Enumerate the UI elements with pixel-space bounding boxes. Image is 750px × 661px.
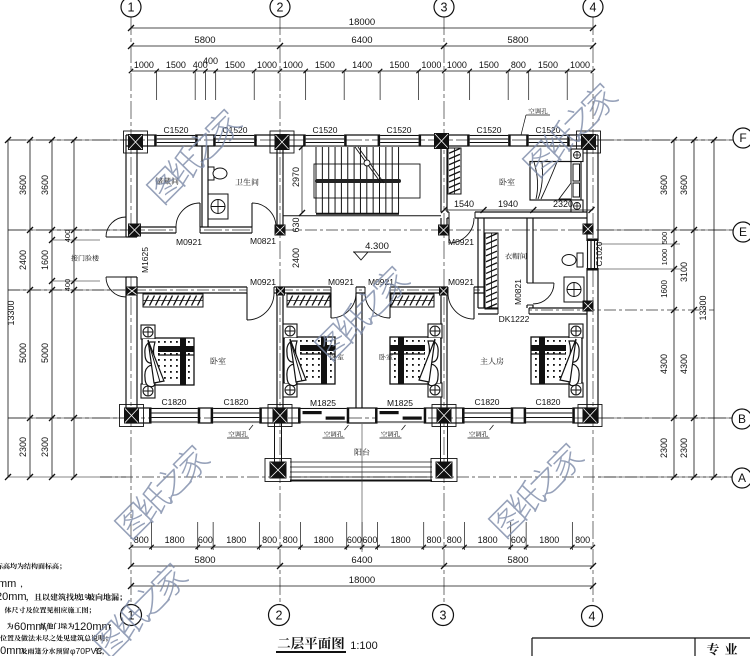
title underline <box>276 651 346 653</box>
svg-text:6400: 6400 <box>351 35 372 46</box>
svg-text:13300: 13300 <box>698 295 708 320</box>
wall 1 left exterior <box>125 135 127 423</box>
svg-text:60mm,: 60mm, <box>14 621 48 633</box>
column 3E2 <box>439 287 448 296</box>
balcony label <box>355 448 370 455</box>
svg-text:C1820: C1820 <box>535 397 560 407</box>
room label storage <box>155 177 178 184</box>
svg-text:1000: 1000 <box>660 249 669 266</box>
svg-text:F: F <box>739 131 746 145</box>
stair dim 2970/630 <box>301 147 303 213</box>
svg-text:3: 3 <box>440 608 447 622</box>
watermark 5 <box>486 439 586 539</box>
room label cloakroom <box>505 253 527 260</box>
column 2B <box>268 405 292 427</box>
svg-text:E: E <box>739 225 747 239</box>
bed bedroom3 <box>390 337 441 384</box>
axis A horizontal dash-dot <box>100 476 732 478</box>
svg-text:4: 4 <box>589 609 596 623</box>
watermark 4 <box>112 441 212 541</box>
svg-text:5000: 5000 <box>18 343 28 363</box>
balcony side rail right <box>440 423 442 462</box>
svg-text:500: 500 <box>660 232 669 245</box>
stair boundary <box>316 213 399 215</box>
wardrobe bedroom1 <box>143 294 203 307</box>
svg-text:600: 600 <box>198 535 213 545</box>
grid bubble E <box>733 222 750 242</box>
svg-text:2320: 2320 <box>553 199 573 209</box>
svg-text:800: 800 <box>447 535 462 545</box>
svg-text:1540: 1540 <box>454 199 474 209</box>
room label master <box>480 357 503 364</box>
bed top-right bedroom <box>530 162 581 201</box>
notes line1 <box>0 563 62 570</box>
wall 2 vertical E2-B <box>276 293 278 408</box>
svg-text:1500: 1500 <box>389 60 409 70</box>
right dim vertical lines <box>673 140 675 477</box>
balcony column 3A <box>431 459 457 482</box>
balcony mid axis line <box>361 424 363 552</box>
wall 3 vertical F-E <box>440 146 442 212</box>
svg-text:1500: 1500 <box>538 60 558 70</box>
svg-text:1800: 1800 <box>478 535 498 545</box>
bottom dim 5800/6400/5800 <box>131 565 593 567</box>
svg-text:800: 800 <box>262 535 277 545</box>
svg-text:800: 800 <box>575 535 590 545</box>
svg-text:1800: 1800 <box>391 535 411 545</box>
svg-text:13300: 13300 <box>6 300 16 325</box>
svg-text:C1020: C1020 <box>594 241 604 266</box>
grid bubble 4 top <box>583 0 603 17</box>
svg-text:C1820: C1820 <box>161 397 186 407</box>
wall 3 vertical E2-B <box>440 293 442 408</box>
wardrobe bedroom2 <box>287 294 330 307</box>
balcony side rail left <box>274 423 276 462</box>
svg-text:2: 2 <box>276 608 283 622</box>
svg-text:5800: 5800 <box>507 35 528 46</box>
washbasin top bathroom <box>208 194 228 219</box>
balcony column 2A <box>265 459 291 482</box>
wardrobe bedroom3 <box>391 294 434 307</box>
svg-text:5800: 5800 <box>194 555 215 566</box>
windows C1820 / doors M1825 on wall B <box>152 407 198 424</box>
grid bubble 1 top <box>121 0 141 17</box>
door M0921 master (E2 ext) <box>448 293 474 319</box>
column 1F <box>124 131 148 153</box>
svg-text:1000: 1000 <box>257 60 277 70</box>
watermark 1 <box>144 105 244 205</box>
svg-text:18000: 18000 <box>349 575 375 586</box>
svg-text:M0821: M0821 <box>250 236 276 246</box>
svg-text:2970: 2970 <box>291 167 301 187</box>
grid bubble 3 bottom <box>433 605 454 626</box>
wall south of cloakroom/bath y311 <box>478 307 587 309</box>
svg-text:400: 400 <box>63 279 72 292</box>
title <box>278 637 344 650</box>
svg-text:C1520: C1520 <box>312 125 337 135</box>
svg-text:600: 600 <box>511 535 526 545</box>
right dim ticks <box>671 137 677 143</box>
grid bubble 4 bottom <box>582 606 603 627</box>
svg-text:M0921: M0921 <box>448 237 474 247</box>
cloakroom west wall x481 <box>477 218 479 308</box>
left dim ticks <box>27 137 33 143</box>
svg-text:5800: 5800 <box>507 555 528 566</box>
room label bedroom topright <box>499 178 514 185</box>
svg-text:1500: 1500 <box>225 60 245 70</box>
svg-text:1500: 1500 <box>166 60 186 70</box>
svg-text:00mm: 00mm <box>0 645 25 656</box>
door M0921 bedroom1 (E2) <box>247 293 274 320</box>
room label bedroom1 <box>210 357 225 364</box>
grid axis line 3 <box>443 17 445 605</box>
svg-text:DK1222: DK1222 <box>499 314 530 324</box>
AC hole labels bottom <box>229 431 248 437</box>
watermark 3 <box>312 262 412 362</box>
svg-text:C1820: C1820 <box>474 397 499 407</box>
opening DK1222 <box>498 307 529 315</box>
svg-text:1800: 1800 <box>314 535 334 545</box>
door opening M0921 storage in wall E <box>176 226 200 234</box>
door M0821 bath top <box>252 203 276 227</box>
column 3B <box>432 405 456 427</box>
left dim vertical lines <box>7 140 9 477</box>
svg-text:5000: 5000 <box>40 343 50 363</box>
svg-text:C1820: C1820 <box>223 397 248 407</box>
axis E horizontal <box>8 229 733 231</box>
grid bubble B <box>732 409 750 429</box>
svg-text:600: 600 <box>362 535 377 545</box>
svg-text:1000: 1000 <box>570 60 590 70</box>
svg-text:3: 3 <box>441 0 448 14</box>
axis E-right 310 dash-dot <box>520 309 714 311</box>
wall 2 vertical F-E <box>276 146 278 227</box>
svg-text:M0921: M0921 <box>250 277 276 287</box>
notes line4 <box>5 607 91 614</box>
svg-text:800: 800 <box>511 60 526 70</box>
top dim line 5800/6400/5800 <box>131 45 593 47</box>
bed bedroom2 <box>284 337 335 384</box>
svg-text:18000: 18000 <box>349 17 375 28</box>
svg-text:1000: 1000 <box>447 60 467 70</box>
wall E interior horizontal (1-3) <box>137 226 447 228</box>
door M0821 cloak-bath <box>533 283 554 304</box>
grid bubble A <box>732 468 750 488</box>
bed master <box>531 337 582 384</box>
wardrobe cloakroom <box>485 233 498 309</box>
svg-text:3100: 3100 <box>679 262 689 282</box>
bed bedroom1 <box>142 338 194 385</box>
table label <box>707 643 737 655</box>
watermark 6 <box>90 559 190 659</box>
column 2E2 <box>276 287 285 296</box>
wall E-prime right horizontal <box>447 211 587 213</box>
notes line5 <box>7 623 14 630</box>
door M0921 storage <box>176 203 200 227</box>
stair rail outline <box>314 164 420 198</box>
svg-text:1500: 1500 <box>479 60 499 70</box>
grid axis line 1 <box>130 17 132 605</box>
grid bubble F <box>733 128 750 148</box>
svg-text:φ70PVC: φ70PVC <box>70 646 102 656</box>
svg-text:M0921: M0921 <box>328 277 354 287</box>
svg-text:M1825: M1825 <box>387 398 413 408</box>
svg-text:C1520: C1520 <box>476 125 501 135</box>
column 4F <box>577 131 601 153</box>
svg-text:C1520: C1520 <box>386 125 411 135</box>
watermark 2 <box>520 79 620 179</box>
svg-text:400: 400 <box>203 56 218 66</box>
toilet top bathroom <box>208 167 214 180</box>
grid axis line 2 <box>279 17 281 605</box>
axis F horizontal <box>8 139 733 141</box>
svg-text:2300: 2300 <box>40 437 50 457</box>
svg-text:2300: 2300 <box>679 438 689 458</box>
svg-text:4300: 4300 <box>679 354 689 374</box>
wall E2 extension right with master door <box>447 286 484 288</box>
top extension lines <box>156 71 158 100</box>
svg-text:2400: 2400 <box>18 250 28 270</box>
right dim horizontal extension lines <box>598 139 733 141</box>
grid axis line 4 <box>592 17 594 605</box>
svg-text:4300: 4300 <box>659 354 669 374</box>
washbasin master bathroom <box>564 277 584 302</box>
svg-text:20mm: 20mm <box>0 591 27 603</box>
svg-text:1:100: 1:100 <box>350 640 378 652</box>
svg-text:600: 600 <box>347 535 362 545</box>
svg-text:M1825: M1825 <box>310 398 336 408</box>
top dim line 18000 <box>131 27 593 29</box>
svg-text:3600: 3600 <box>659 175 669 195</box>
windows C1520 on wall F <box>157 134 196 147</box>
door M0921 bedroom3 (E2) <box>365 293 390 318</box>
column 1B <box>120 405 144 427</box>
notes line6 <box>0 635 107 642</box>
window C1020 in right wall <box>586 241 599 268</box>
bottom dim 18000 <box>131 585 593 587</box>
svg-text:2: 2 <box>277 0 284 14</box>
door M1625 opening in left wall <box>125 237 138 277</box>
svg-text:2400: 2400 <box>291 248 301 268</box>
svg-text:2300: 2300 <box>659 438 669 458</box>
wall F top exterior <box>126 134 598 136</box>
svg-text:M0921: M0921 <box>176 237 202 247</box>
door opening M0821 bath in wall E <box>252 226 276 234</box>
svg-text:5800: 5800 <box>194 35 215 46</box>
room label bathroom <box>235 178 258 185</box>
title table bottom right <box>532 637 750 639</box>
AC hole label top <box>529 108 548 114</box>
dim 1540/1940/2320 <box>444 209 593 211</box>
balcony front railing <box>290 461 432 463</box>
svg-text:M1625: M1625 <box>140 247 150 273</box>
svg-text:1400: 1400 <box>352 60 372 70</box>
svg-text:1500: 1500 <box>315 60 335 70</box>
door openings in wall E2 <box>247 286 274 294</box>
svg-text:B: B <box>738 412 746 426</box>
svg-text:M0921: M0921 <box>448 277 474 287</box>
wall B bottom exterior <box>126 407 598 409</box>
door opening M0921 in wall E-prime <box>449 211 475 219</box>
bottom dim detail row <box>131 546 593 548</box>
svg-text:3600: 3600 <box>679 175 689 195</box>
cloakroom/bath wall x530 <box>526 218 528 308</box>
column 4E <box>583 224 594 235</box>
room label bedroom2 <box>330 354 343 360</box>
grid bubble 3 top <box>434 0 454 17</box>
svg-text:2300: 2300 <box>18 437 28 457</box>
stair mid handrail <box>315 179 401 183</box>
room label bedroom3 <box>379 354 392 360</box>
svg-text:1000: 1000 <box>134 60 154 70</box>
column 1E <box>128 224 141 237</box>
grid bubble 2 bottom <box>269 605 290 626</box>
axis E2 horizontal dash-dot <box>8 289 480 291</box>
svg-text:1800: 1800 <box>226 535 246 545</box>
svg-text:800: 800 <box>426 535 441 545</box>
left dim horizontal extension lines <box>8 139 126 141</box>
wall mid-bedroom vertical x359 <box>355 293 357 408</box>
svg-text:800: 800 <box>283 535 298 545</box>
door opening M0821 cloak-bath <box>526 283 534 305</box>
svg-text:1000: 1000 <box>283 60 303 70</box>
grid bubble 2 top <box>270 0 290 17</box>
column 2E <box>275 225 286 236</box>
wall E2 interior horizontal <box>137 286 447 288</box>
door M0921 top-right bedroom (E-prime) <box>449 218 474 243</box>
svg-text:1800: 1800 <box>539 535 559 545</box>
door M1625 double leaf at left wall <box>106 217 126 237</box>
svg-text:3600: 3600 <box>18 175 28 195</box>
grid bubble 1 bottom <box>121 605 142 626</box>
stair break line <box>355 147 384 183</box>
column 3E <box>438 225 449 236</box>
label jiemenlianlou <box>71 255 99 261</box>
svg-text:1: 1 <box>128 0 135 14</box>
opening in wall E at stair hall <box>284 226 440 234</box>
svg-text:1000: 1000 <box>421 60 441 70</box>
stair treads <box>316 147 399 213</box>
svg-text:6400: 6400 <box>351 555 372 566</box>
bottom extension lines <box>151 522 153 550</box>
door M0921 bedroom2 (E2) <box>331 293 356 318</box>
svg-text:400: 400 <box>63 230 72 243</box>
column 1E2 <box>127 287 138 296</box>
svg-text:1600: 1600 <box>660 280 669 298</box>
svg-text:A: A <box>738 471 746 485</box>
svg-text:M0821: M0821 <box>513 279 523 305</box>
column 4B <box>578 405 602 427</box>
svg-text:mm: mm <box>0 578 16 590</box>
svg-text:1600: 1600 <box>40 250 50 270</box>
axis B horizontal <box>8 417 732 419</box>
column 2F <box>270 131 294 153</box>
svg-text:3600: 3600 <box>40 175 50 195</box>
svg-text:1940: 1940 <box>498 199 518 209</box>
top dim detail row <box>131 70 593 72</box>
toilet master bathroom <box>577 253 583 267</box>
svg-text:4.300: 4.300 <box>365 241 389 252</box>
wall storage/bath vertical x205 <box>201 146 203 227</box>
column 4 bath corner <box>583 301 594 312</box>
wall 4 right exterior <box>586 135 588 423</box>
svg-text:630: 630 <box>291 217 301 232</box>
column 3F <box>434 133 449 149</box>
svg-text:4: 4 <box>590 0 597 14</box>
svg-text:C1520: C1520 <box>163 125 188 135</box>
svg-text:1800: 1800 <box>165 535 185 545</box>
wardrobe top-right bedroom <box>448 148 461 194</box>
